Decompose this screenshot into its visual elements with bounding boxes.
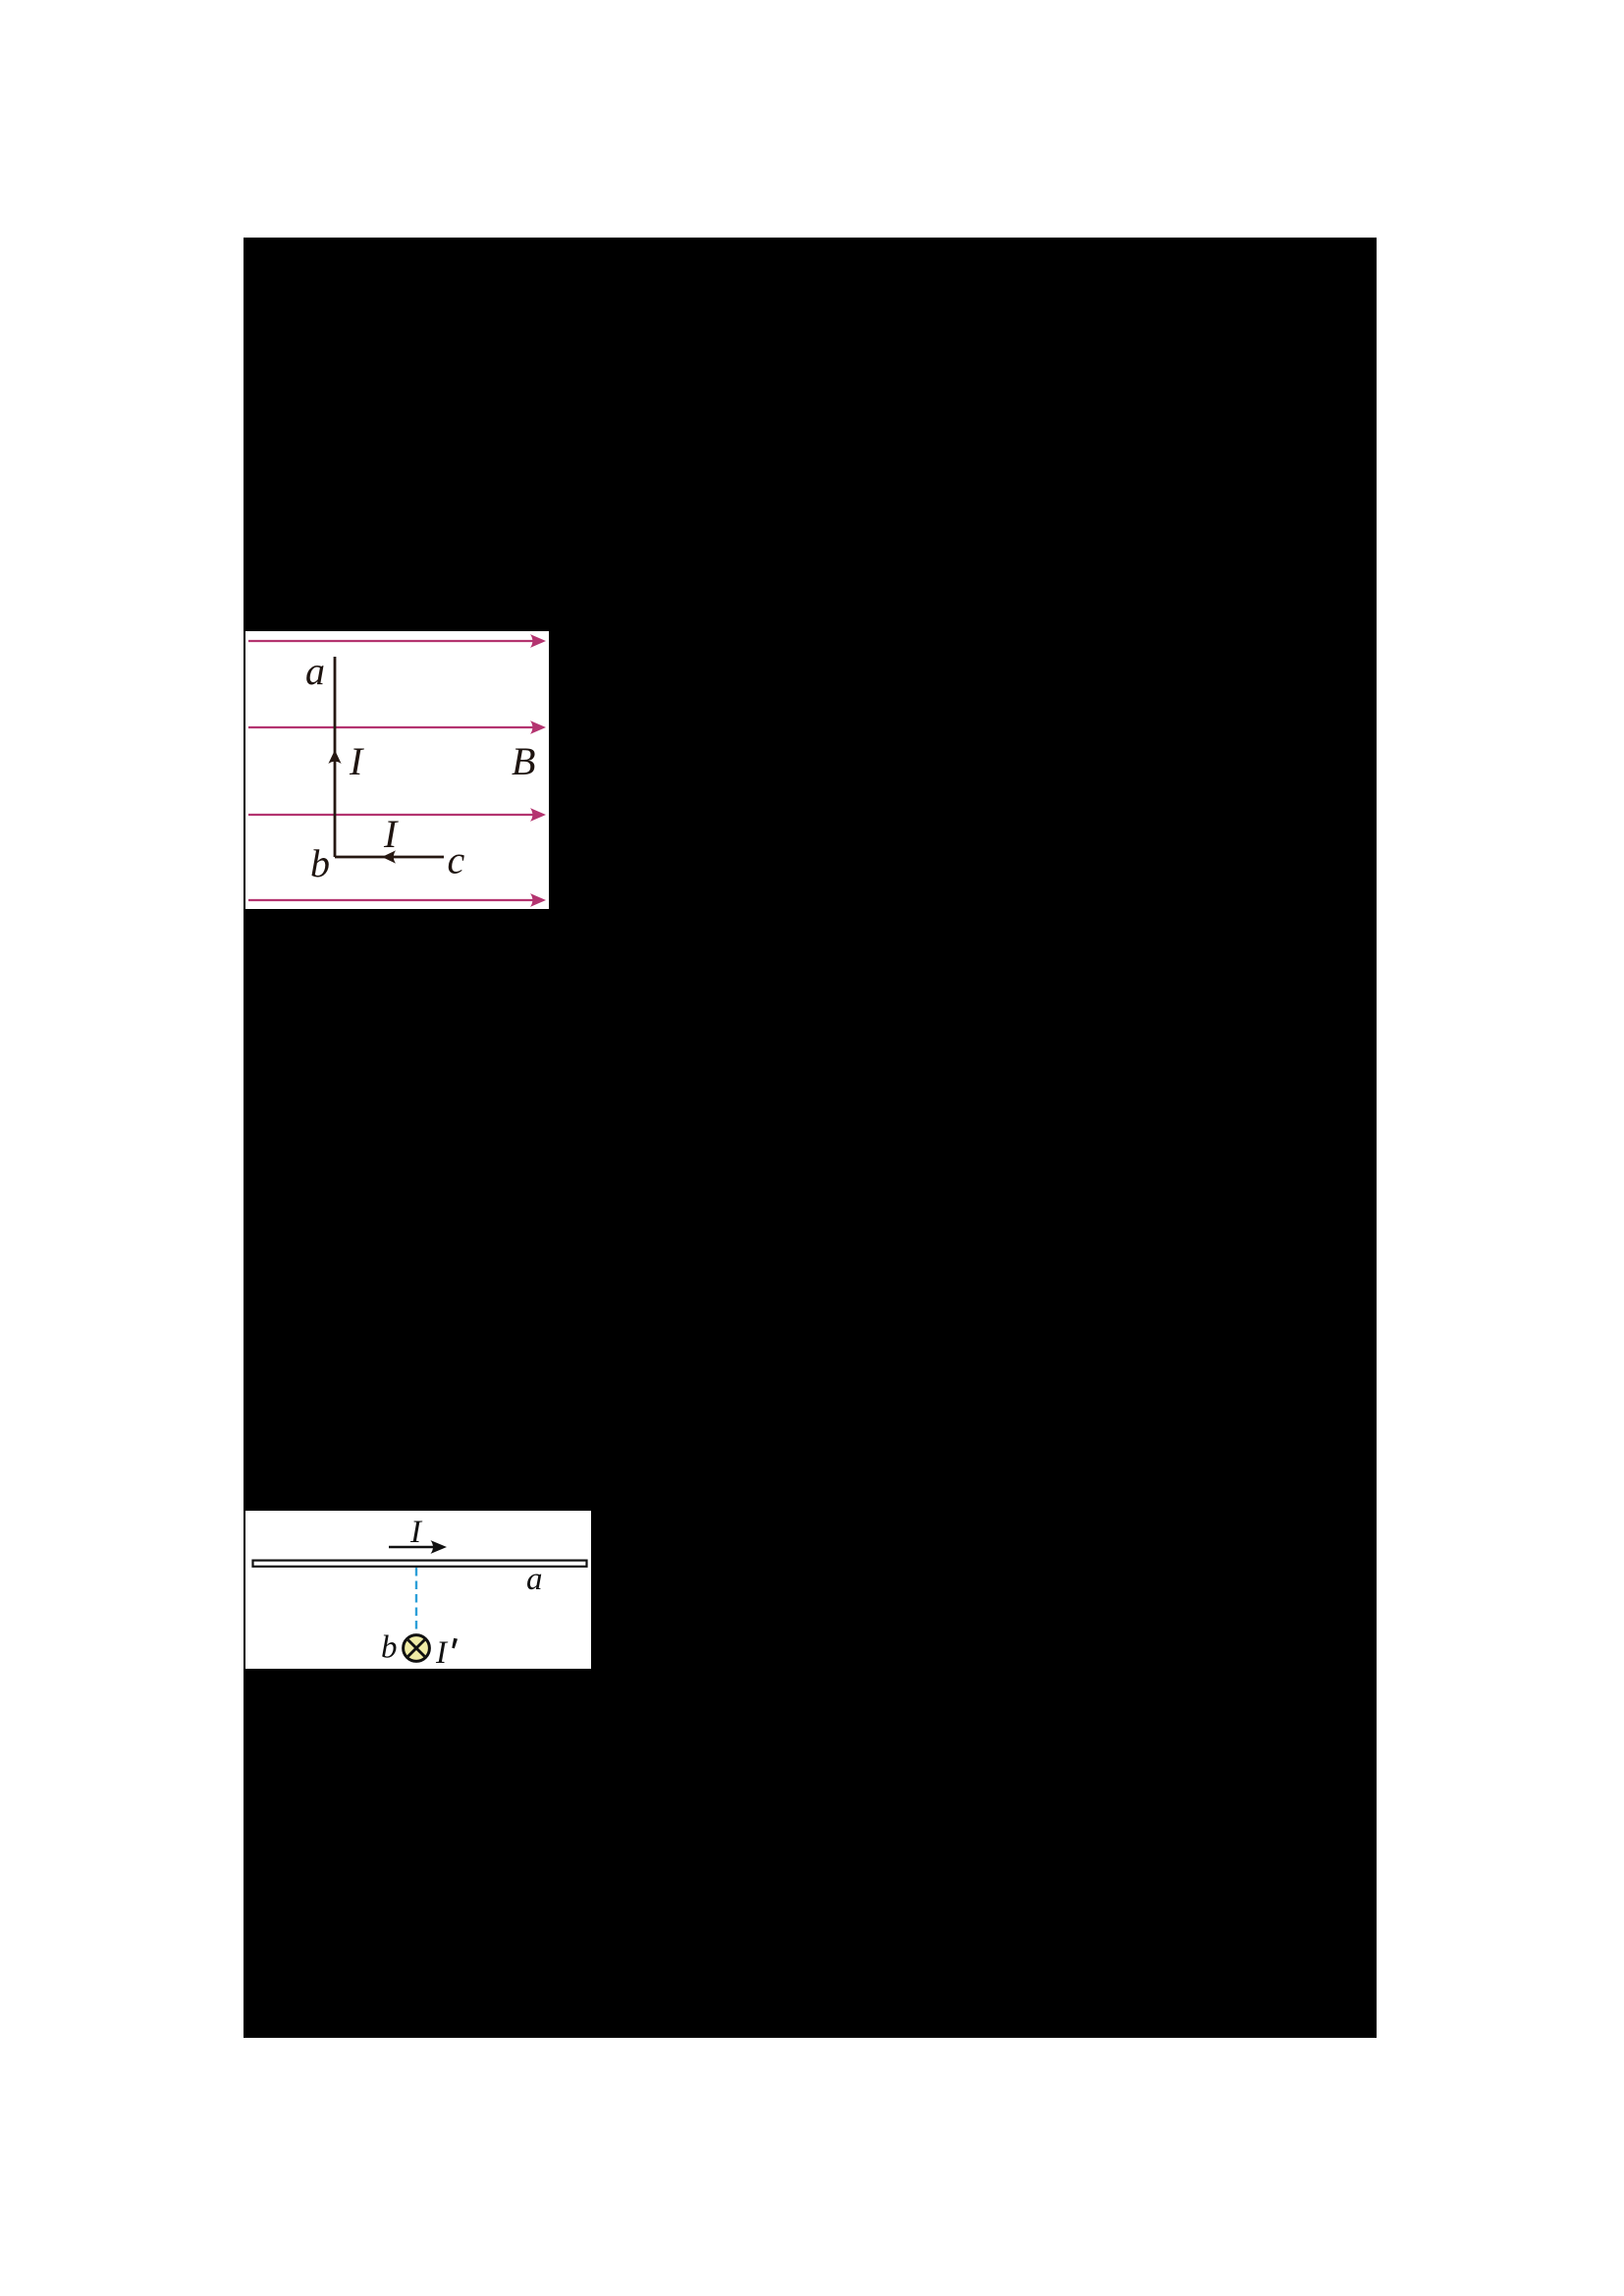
svg-text:c: c [448,838,465,882]
field line B3 [248,808,546,822]
field line B2 [248,721,546,734]
wire segment a-b (vertical) [334,657,337,857]
current arrow up on ab [328,750,341,764]
svg-text:I: I [409,1515,423,1550]
rod a (thin rectangle) [253,1561,587,1567]
current arrow I above rod [389,1540,447,1554]
black redaction block [244,238,1377,2038]
svg-text:I: I [435,1635,449,1669]
svg-text:b: b [381,1630,398,1666]
wire b: current into page symbol [404,1635,430,1662]
svg-text:a: a [526,1562,543,1597]
svg-text:B: B [512,739,535,783]
dashed distance line [415,1568,417,1633]
current arrow left on cb [382,850,396,863]
svg-text:I: I [383,812,399,856]
svg-text:b: b [310,841,330,885]
svg-text:I: I [349,739,364,783]
svg-text:a: a [305,649,325,693]
wire segment b-c (horizontal) [335,856,444,859]
field line B1 [248,634,546,648]
prime mark of I' [452,1638,458,1649]
figure 2: current-carrying rod a and parallel wire b with current into page [245,1511,591,1669]
field line B4 [248,893,546,907]
figure 1: straight wire ab/bc in uniform field B [245,631,549,909]
